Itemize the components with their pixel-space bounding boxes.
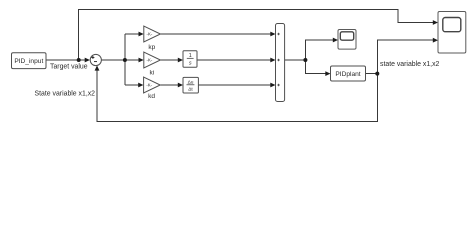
scope Scope (middle) <box>338 30 356 50</box>
sum junction S1 <box>90 54 101 65</box>
arrow into Scope1 input1 <box>433 20 438 25</box>
wire: node B down to PIDplant <box>305 60 327 74</box>
arrow into ki <box>139 58 144 63</box>
svg-text:PIDplant: PIDplant <box>335 71 360 78</box>
Add bar (sum block) <box>276 24 285 102</box>
junction dots <box>77 58 380 76</box>
arrow into PIDplant <box>325 71 330 76</box>
svg-text:-K-: -K- <box>146 83 152 88</box>
wire: kd out to derivative <box>160 84 179 86</box>
subsystem PIDplant <box>331 66 366 81</box>
wire: node C up to Scope1 input2 <box>377 40 433 73</box>
wire: stub to kp <box>125 33 141 35</box>
arrow into Scope <box>333 38 338 43</box>
wire: feedback node C down, across bottom, up to sum <box>97 69 377 122</box>
svg-text:s: s <box>189 61 192 67</box>
arrow into Add bar input3 <box>270 83 275 88</box>
svg-text:PID_input: PID_input <box>14 58 43 65</box>
wire: integrator out to Add bar <box>197 59 272 61</box>
arrow into integrator <box>178 58 183 63</box>
gain kd <box>144 77 161 100</box>
svg-text:Δt: Δt <box>188 87 193 93</box>
gain kp <box>144 26 161 51</box>
integrator 1/s <box>183 51 197 67</box>
node B: scope/plant branch <box>303 58 307 62</box>
node: kp/ki/kd branch <box>123 58 127 62</box>
wire: stub to kd <box>125 84 140 86</box>
node A: target value branch <box>77 58 81 62</box>
scope Scope1 (top right) <box>438 12 466 54</box>
svg-text:-K-: -K- <box>147 32 153 37</box>
arrow into kp <box>139 32 144 37</box>
svg-text:State variable x1,x2: State variable x1,x2 <box>35 91 96 98</box>
svg-text:kd: kd <box>148 93 155 100</box>
svg-text:-K-: -K- <box>147 58 153 63</box>
arrow into sum left <box>85 58 90 63</box>
arrow into Add bar input2 <box>270 58 275 63</box>
wire: PIDplant out to node C <box>366 73 378 75</box>
arrowheads <box>85 20 438 87</box>
gain ki <box>144 52 161 76</box>
wire: Add bar out to node B <box>285 59 306 61</box>
arrow into sum bottom (up) <box>95 65 100 70</box>
arrow into Add bar input1 <box>270 32 275 37</box>
wire: ki out to integrator <box>160 59 179 61</box>
arrow into kd <box>138 83 143 88</box>
wire: PID_input to sum <box>46 59 87 61</box>
derivative du/dt <box>183 77 198 93</box>
subsystem PID_input <box>12 53 47 69</box>
svg-text:Target value: Target value <box>50 63 88 70</box>
svg-text:kp: kp <box>148 44 155 51</box>
wire: branch vertical kp-ki-kd <box>124 34 126 85</box>
wire: stub to ki <box>125 59 141 61</box>
wire: target value branch up and across top to Scope1 input1 <box>79 9 434 60</box>
wire: derivative out to Add bar <box>198 84 272 86</box>
wire: sum output to branch node <box>101 59 125 61</box>
wire: node B up to Scope <box>305 40 334 60</box>
wire: kp out to Add bar <box>160 33 272 35</box>
arrow into Scope1 input2 <box>433 38 438 43</box>
node C: plant output branch <box>375 72 379 76</box>
svg-text:ki: ki <box>149 70 154 77</box>
arrow into derivative <box>178 83 183 88</box>
svg-text:state variable x1,x2: state variable x1,x2 <box>380 61 440 68</box>
